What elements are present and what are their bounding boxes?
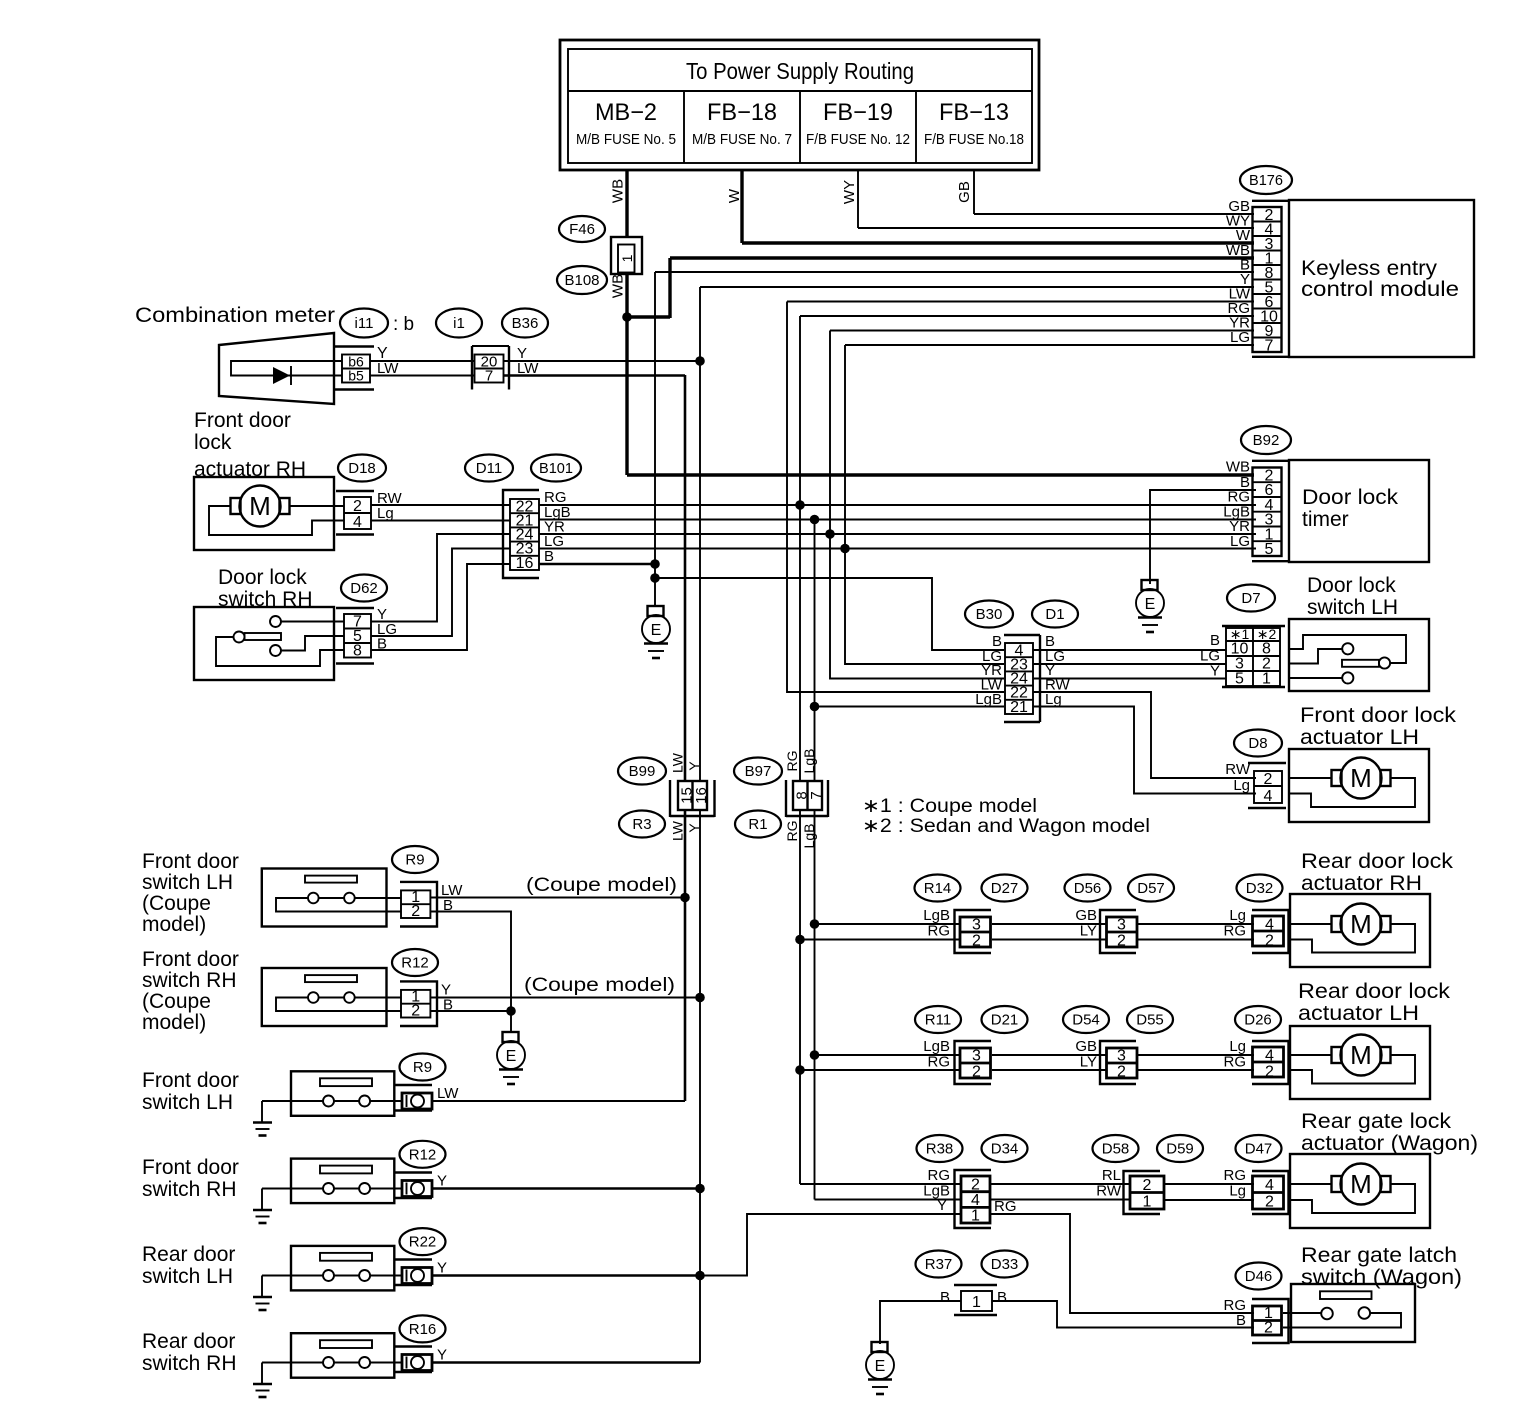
B101 wire labels xyxy=(544,489,571,565)
rear gate latch switch box xyxy=(1283,1284,1415,1342)
svg-text:(Coupe: (Coupe xyxy=(142,990,211,1013)
connector R9 pins 1/2 (coupe) xyxy=(400,882,463,927)
wires D58/D59 to D47 xyxy=(1164,1184,1254,1200)
connector R38 oval xyxy=(917,1135,963,1162)
svg-text:4: 4 xyxy=(1265,917,1274,934)
connector D46 oval xyxy=(1236,1263,1282,1290)
svg-text:R22: R22 xyxy=(409,1234,437,1251)
rear gate lock actuator box xyxy=(1289,1154,1430,1228)
svg-text:7: 7 xyxy=(808,791,825,799)
svg-text:GB: GB xyxy=(1075,907,1097,924)
connector R16 single pin xyxy=(394,1347,447,1373)
svg-text:Y: Y xyxy=(437,1173,447,1190)
svg-text:F/B FUSE No. 12: F/B FUSE No. 12 xyxy=(806,131,910,148)
svg-text:GB: GB xyxy=(956,181,973,203)
svg-text:actuator RH: actuator RH xyxy=(1301,872,1422,895)
connector D32 oval xyxy=(1237,875,1283,902)
B30/D1 right wire labels xyxy=(1045,633,1071,708)
keyless pin wire labels xyxy=(1226,198,1251,346)
svg-text:D27: D27 xyxy=(991,880,1019,897)
wire Y R12 coupe xyxy=(430,997,700,999)
svg-text:D59: D59 xyxy=(1166,1141,1194,1158)
connector R37/D33 pin 1 xyxy=(940,1285,1007,1315)
svg-text:Y: Y xyxy=(437,1347,447,1364)
svg-text:actuator LH: actuator LH xyxy=(1300,726,1419,749)
wires B36 onward xyxy=(504,361,701,376)
connector D56 oval xyxy=(1065,875,1111,902)
svg-text:3: 3 xyxy=(1117,1048,1126,1065)
connector R22 oval xyxy=(400,1228,446,1255)
svg-text:4: 4 xyxy=(1265,1177,1274,1194)
svg-text:R12: R12 xyxy=(409,1146,437,1163)
front door switch RH (coupe) label xyxy=(142,948,239,1034)
door lock switch RH box xyxy=(194,607,344,680)
svg-text:D32: D32 xyxy=(1246,880,1274,897)
svg-text:B101: B101 xyxy=(539,460,573,477)
svg-text:: b: : b xyxy=(393,314,414,335)
svg-text:2: 2 xyxy=(972,1064,981,1081)
connector D11 oval xyxy=(465,455,513,482)
svg-text:B99: B99 xyxy=(629,763,656,780)
connector D18 pins 2/4 xyxy=(336,490,403,535)
wires D56/D57 to D32 xyxy=(1137,924,1254,940)
combination meter symbol xyxy=(219,333,342,404)
svg-text:2: 2 xyxy=(1264,1320,1273,1337)
svg-text:switch RH: switch RH xyxy=(142,1178,237,1201)
connector R14 oval xyxy=(915,875,961,902)
svg-text:Front door: Front door xyxy=(142,850,239,873)
svg-text:B: B xyxy=(997,1289,1007,1306)
svg-text:LW: LW xyxy=(670,752,686,773)
svg-text:R3: R3 xyxy=(632,816,651,833)
svg-text:D7: D7 xyxy=(1241,590,1260,607)
svg-text:FB−18: FB−18 xyxy=(707,99,777,126)
svg-text:2: 2 xyxy=(411,1003,420,1020)
svg-text:Rear door: Rear door xyxy=(142,1330,235,1353)
svg-text:RG: RG xyxy=(994,1198,1017,1215)
wire Y rear door switch LH xyxy=(432,1274,700,1277)
B101 to door lock timer lines xyxy=(539,505,1256,564)
svg-text:RG: RG xyxy=(928,1054,951,1071)
svg-text:RG: RG xyxy=(1224,1054,1247,1071)
front door switch RH box xyxy=(262,1159,402,1204)
svg-text:model): model) xyxy=(142,1011,206,1034)
svg-text:1: 1 xyxy=(972,1294,981,1311)
svg-text:LW: LW xyxy=(377,360,399,377)
connector D62 pins 7/5/8 xyxy=(336,606,397,664)
svg-text:control module: control module xyxy=(1301,278,1459,301)
svg-text:D54: D54 xyxy=(1072,1012,1100,1029)
svg-text:RG: RG xyxy=(1224,1167,1247,1184)
svg-text:B30: B30 xyxy=(976,606,1003,623)
connector R12 oval (coupe) xyxy=(392,949,438,976)
svg-text:Lg: Lg xyxy=(1229,1038,1246,1055)
connector D8 oval xyxy=(1234,730,1282,757)
wires R38/D34 to D58/D59 xyxy=(990,1184,1130,1200)
svg-text:2: 2 xyxy=(1143,1177,1152,1194)
svg-text:2: 2 xyxy=(353,498,362,515)
svg-text:RL: RL xyxy=(1102,1167,1121,1184)
svg-text:(Coupe model): (Coupe model) xyxy=(524,975,675,996)
svg-text:LG: LG xyxy=(1230,533,1250,550)
svg-text:D47: D47 xyxy=(1245,1141,1273,1158)
B30/D1 left wire labels xyxy=(975,633,1003,708)
svg-text:D34: D34 xyxy=(991,1141,1019,1158)
connector R11/D21 pins 3/2 xyxy=(923,1038,991,1084)
svg-text:F46: F46 xyxy=(569,221,595,238)
svg-text:Lg: Lg xyxy=(1233,777,1250,794)
wire LW (keyless pin6 to B30 pin22) xyxy=(787,302,1254,693)
svg-text:LgB: LgB xyxy=(923,907,950,924)
svg-text:Rear door: Rear door xyxy=(142,1243,235,1266)
power supply routing box xyxy=(560,40,1039,170)
svg-text:2: 2 xyxy=(971,1177,980,1194)
connector B99/R3 pins 15/16 xyxy=(670,752,715,841)
wire B (keyless pin8 / B101 pin16 / ground) xyxy=(650,272,1254,606)
wire Lg B30 to D8 xyxy=(1033,707,1256,794)
wires D54/D55 to D26 xyxy=(1137,1055,1254,1070)
svg-text:LgB: LgB xyxy=(801,749,817,774)
connector D59 oval xyxy=(1157,1135,1203,1162)
svg-text:M/B FUSE No. 7: M/B FUSE No. 7 xyxy=(692,131,792,148)
connector B36 oval xyxy=(502,309,548,338)
rear door lock actuator LH label xyxy=(1298,980,1451,1025)
svg-text:RG: RG xyxy=(928,923,951,940)
wire RG rear gate latch feed xyxy=(990,1214,1254,1313)
fuse connector F46/B108 xyxy=(557,216,642,294)
svg-text:D62: D62 xyxy=(350,580,378,597)
connector R16 oval xyxy=(400,1315,446,1342)
svg-text:Front door: Front door xyxy=(194,409,291,432)
svg-text:2: 2 xyxy=(1264,771,1273,788)
svg-text:Y: Y xyxy=(686,761,702,771)
svg-text:R37: R37 xyxy=(925,1256,953,1273)
wire B timer pin6 to ground xyxy=(1150,490,1256,584)
wire B R37 to D46 xyxy=(992,1301,1254,1328)
svg-text:5: 5 xyxy=(1265,541,1274,558)
connector D1 oval xyxy=(1032,601,1078,628)
connector D27 oval xyxy=(982,875,1028,902)
connector D55 oval xyxy=(1127,1006,1173,1033)
wire B R37 to ground xyxy=(880,1301,961,1344)
connector B92 oval xyxy=(1241,426,1291,454)
wire Y front door switch RH xyxy=(432,1187,700,1190)
keyless module pin connector xyxy=(1252,201,1289,357)
svg-text:16: 16 xyxy=(516,555,534,572)
connector D47 oval xyxy=(1236,1135,1282,1162)
svg-text:Rear gate lock: Rear gate lock xyxy=(1301,1110,1452,1133)
connector R37 oval xyxy=(916,1251,962,1278)
svg-text:R11: R11 xyxy=(925,1012,951,1029)
svg-text:M/B FUSE No. 5: M/B FUSE No. 5 xyxy=(576,131,676,148)
svg-text:Lg: Lg xyxy=(1229,1183,1246,1200)
connector R38/D34 pins 2/4/1 xyxy=(923,1167,1016,1228)
svg-text:B176: B176 xyxy=(1249,172,1283,189)
front door switch RH label xyxy=(142,1156,239,1201)
connector R14/D27 pins 3/2 xyxy=(923,907,991,953)
svg-text:D55: D55 xyxy=(1136,1012,1164,1029)
connector R9 single pin xyxy=(394,1085,459,1111)
svg-text:2: 2 xyxy=(411,903,420,920)
wire B branch to B30 pin4 xyxy=(655,578,1004,650)
svg-text:Y: Y xyxy=(1210,663,1220,680)
rear door switch RH label xyxy=(142,1330,237,1375)
connector D58 oval xyxy=(1093,1135,1139,1162)
connector D47 pins 4/2 xyxy=(1224,1167,1289,1214)
svg-text:4: 4 xyxy=(971,1192,980,1209)
svg-text:D33: D33 xyxy=(991,1256,1019,1273)
svg-text:R38: R38 xyxy=(926,1141,954,1158)
svg-text:switch LH: switch LH xyxy=(1307,596,1398,619)
wire GB from FB-13 xyxy=(956,170,1254,214)
connector D54/D55 pins 3/2 xyxy=(1075,1038,1137,1084)
svg-text:D1: D1 xyxy=(1045,606,1064,623)
svg-text:R9: R9 xyxy=(413,1059,432,1076)
connector i11:b pins b6/b5 xyxy=(334,345,399,390)
rear door lock actuator RH label xyxy=(1301,850,1454,895)
ground (rear door switch LH) xyxy=(253,1276,272,1311)
wire RW B30 to D8 xyxy=(1033,692,1256,778)
connector i11 oval xyxy=(340,309,414,338)
svg-text:Front door: Front door xyxy=(142,1156,239,1179)
svg-text:WY: WY xyxy=(841,180,858,204)
connector B101 pin strip xyxy=(503,490,539,578)
svg-text:switch (Wagon): switch (Wagon) xyxy=(1301,1266,1462,1289)
svg-text:switch LH: switch LH xyxy=(142,1091,233,1114)
svg-text:Door lock: Door lock xyxy=(1302,486,1399,509)
svg-text:RG: RG xyxy=(784,821,800,842)
D8 wire labels xyxy=(1225,761,1251,794)
svg-text:FB−13: FB−13 xyxy=(939,99,1009,126)
connector B97 oval xyxy=(734,758,782,785)
svg-text:D57: D57 xyxy=(1137,880,1165,897)
wire B R12 coupe to ground xyxy=(430,1010,511,1012)
svg-text:R1: R1 xyxy=(748,816,767,833)
ground (front door switch LH) xyxy=(253,1101,272,1136)
svg-text:Front door: Front door xyxy=(142,1069,239,1092)
connector R1 oval xyxy=(735,811,781,838)
svg-text:RW: RW xyxy=(1225,761,1251,778)
wire YR (keyless pin9 / B101 / timer / B30 pin24) xyxy=(825,331,1254,679)
connector D8 pins 2/4 xyxy=(1248,763,1286,808)
svg-text:Rear gate latch: Rear gate latch xyxy=(1301,1244,1457,1267)
svg-text:D26: D26 xyxy=(1244,1012,1272,1029)
svg-text:21: 21 xyxy=(1010,699,1028,716)
svg-text:3: 3 xyxy=(972,917,981,934)
svg-text:RW: RW xyxy=(1096,1183,1122,1200)
connector B92 pin strip xyxy=(1252,461,1289,561)
door lock switch RH label xyxy=(218,566,313,611)
wires R14/D27 to D56/D57 xyxy=(992,924,1106,940)
connector B30/D1 pin strip xyxy=(1004,635,1040,722)
connector D62 oval xyxy=(341,575,387,602)
svg-text:4: 4 xyxy=(353,514,362,531)
svg-text:i11: i11 xyxy=(355,315,374,332)
svg-text:lock: lock xyxy=(194,431,232,454)
wire Y branch to rear gate xyxy=(700,1214,961,1276)
rear door switch LH box xyxy=(262,1246,402,1291)
connector R9 oval (coupe) xyxy=(392,846,438,873)
front door lock actuator LH label xyxy=(1300,704,1457,749)
svg-text:LgB: LgB xyxy=(923,1038,950,1055)
connector D34 oval xyxy=(982,1135,1028,1162)
svg-text:B108: B108 xyxy=(564,272,599,289)
svg-text:LgB: LgB xyxy=(975,691,1002,708)
svg-text:(Coupe: (Coupe xyxy=(142,892,211,915)
svg-text:D46: D46 xyxy=(1245,1268,1273,1285)
front door switch LH box xyxy=(262,1071,402,1116)
svg-text:2: 2 xyxy=(1117,1064,1126,1081)
svg-text:2: 2 xyxy=(972,933,981,950)
svg-text:RG: RG xyxy=(784,751,800,772)
connector R12 pins 1/2 (coupe) xyxy=(400,981,453,1026)
svg-text:B: B xyxy=(544,548,554,565)
svg-text:D8: D8 xyxy=(1248,735,1267,752)
wire B R9 coupe xyxy=(430,912,511,1012)
svg-text:Door lock: Door lock xyxy=(218,566,307,589)
connector B99 oval xyxy=(618,758,666,785)
svg-text:i1: i1 xyxy=(453,315,465,332)
ground (front door switch RH) xyxy=(253,1189,272,1224)
connector D33 oval xyxy=(982,1251,1028,1278)
svg-text:R9: R9 xyxy=(405,852,424,869)
svg-text:WB: WB xyxy=(610,274,627,298)
wires R11/D21 to D54/D55 xyxy=(992,1055,1106,1070)
svg-text:Y: Y xyxy=(937,1197,947,1214)
svg-text:To Power Supply Routing: To Power Supply Routing xyxy=(686,58,914,84)
svg-text:MB−2: MB−2 xyxy=(595,99,657,126)
svg-text:1: 1 xyxy=(971,1208,980,1225)
svg-text:Keyless entry: Keyless entry xyxy=(1301,257,1438,280)
B92 wire labels xyxy=(1223,459,1250,551)
svg-text:switch LH: switch LH xyxy=(142,1265,233,1288)
svg-text:3: 3 xyxy=(1117,917,1126,934)
svg-text:4: 4 xyxy=(1264,788,1273,805)
svg-text:2: 2 xyxy=(1265,933,1274,950)
connector D46 pins 1/2 xyxy=(1224,1297,1289,1343)
wires D18 to B101 xyxy=(371,505,510,521)
connector D26 oval xyxy=(1235,1006,1281,1033)
svg-text:model): model) xyxy=(142,913,206,936)
svg-text:D56: D56 xyxy=(1074,880,1102,897)
connector D32 pins 4/2 xyxy=(1224,907,1289,953)
svg-text:actuator (Wagon): actuator (Wagon) xyxy=(1301,1132,1478,1155)
svg-text:7: 7 xyxy=(1265,338,1274,355)
svg-text:Combination meter: Combination meter xyxy=(135,304,335,327)
wire Y rear door switch RH xyxy=(432,1361,700,1364)
svg-text:∗2 : Sedan and Wagon model: ∗2 : Sedan and Wagon model xyxy=(862,816,1150,837)
svg-text:Rear door lock: Rear door lock xyxy=(1298,980,1451,1003)
svg-text:R12: R12 xyxy=(401,955,429,972)
svg-text:B: B xyxy=(1236,1312,1246,1329)
front door switch LH label xyxy=(142,1069,239,1114)
svg-text:2: 2 xyxy=(1265,1194,1274,1211)
svg-text:GB: GB xyxy=(1075,1038,1097,1055)
connector R9 oval xyxy=(400,1054,446,1081)
wires D62 up to B101 xyxy=(371,534,510,650)
svg-text:LW: LW xyxy=(670,820,686,841)
svg-text:switch RH: switch RH xyxy=(142,969,237,992)
front door switch RH (coupe) box xyxy=(262,968,401,1026)
connector D56/D57 pins 3/2 xyxy=(1075,907,1137,953)
svg-text:WB: WB xyxy=(610,179,627,203)
svg-text:Lg: Lg xyxy=(377,505,394,522)
wire LgB (B101 / timer / B30 / B97 / rear actuators) xyxy=(810,515,1004,1200)
svg-text:Lg: Lg xyxy=(1045,691,1062,708)
rear door switch LH label xyxy=(142,1243,235,1288)
door lock switch LH label xyxy=(1307,574,1398,619)
svg-text:B92: B92 xyxy=(1253,432,1280,449)
door lock timer box xyxy=(1289,460,1429,562)
svg-text:W: W xyxy=(726,188,743,203)
connector D26 pins 4/2 xyxy=(1224,1038,1289,1084)
svg-text:F/B FUSE No.18: F/B FUSE No.18 xyxy=(924,131,1024,148)
svg-text:2: 2 xyxy=(1265,1064,1274,1081)
door lock switch LH box xyxy=(1289,619,1429,691)
svg-text:LY: LY xyxy=(1080,923,1097,940)
svg-text:Front door: Front door xyxy=(142,948,239,971)
svg-text:3: 3 xyxy=(972,1048,981,1065)
svg-text:D11: D11 xyxy=(476,460,502,477)
svg-text:RG: RG xyxy=(928,1167,951,1184)
rear door switch RH box xyxy=(262,1333,402,1378)
front door switch LH (coupe) box xyxy=(262,869,401,927)
wire RG (keyless pin10 / B101 / timer / B97 / rear actuators) xyxy=(795,316,1254,1184)
ground (rear door switch RH) xyxy=(253,1363,272,1398)
svg-text:switch LH: switch LH xyxy=(142,871,233,894)
wire LG (keyless pin7 / B101 / timer / B30 pin23) xyxy=(840,345,1254,664)
connector R12 single pin xyxy=(394,1173,447,1199)
svg-text:(Coupe model): (Coupe model) xyxy=(526,875,677,896)
svg-text:b5: b5 xyxy=(348,368,364,384)
svg-text:RG: RG xyxy=(1224,923,1247,940)
connector R22 single pin xyxy=(394,1260,447,1286)
ground E (B101 B wire) xyxy=(642,606,670,658)
keyless entry control module xyxy=(1289,200,1474,357)
connector D21 oval xyxy=(982,1006,1028,1033)
svg-text:7: 7 xyxy=(485,368,493,385)
svg-text:FB−19: FB−19 xyxy=(823,99,893,126)
connector D58/D59 pins 2/1 xyxy=(1096,1167,1164,1214)
svg-text:∗1 : Coupe model: ∗1 : Coupe model xyxy=(862,796,1037,817)
connector R11 oval xyxy=(915,1006,961,1033)
svg-text:8: 8 xyxy=(353,643,362,660)
rear door lock actuator LH box xyxy=(1289,1026,1430,1099)
connector D7 oval xyxy=(1227,585,1275,612)
ground E (door lock timer) xyxy=(1136,580,1164,632)
wires meter to B36 connector xyxy=(370,361,474,376)
svg-text:Front door lock: Front door lock xyxy=(1300,704,1457,727)
svg-text:1: 1 xyxy=(1143,1194,1152,1211)
svg-text:2: 2 xyxy=(1117,933,1126,950)
connector B30 oval xyxy=(965,601,1013,628)
svg-text:B: B xyxy=(940,1289,950,1306)
svg-text:LY: LY xyxy=(1080,1054,1097,1071)
connector D18 oval xyxy=(338,455,386,482)
svg-text:4: 4 xyxy=(1265,1048,1274,1065)
connector B36 pins 20/7 xyxy=(472,345,539,390)
rear door lock actuator RH box xyxy=(1289,894,1430,967)
wire WY from FB-19 xyxy=(841,170,1254,228)
connector D54 oval xyxy=(1063,1006,1109,1033)
svg-text:R14: R14 xyxy=(924,880,952,897)
connector B176 xyxy=(1240,166,1292,194)
front door lock actuator LH box xyxy=(1289,749,1429,822)
connector i1 oval xyxy=(436,309,482,338)
svg-text:LgB: LgB xyxy=(801,824,817,849)
rear gate latch switch label xyxy=(1301,1244,1462,1289)
ground E (coupe switches) xyxy=(497,1032,525,1084)
